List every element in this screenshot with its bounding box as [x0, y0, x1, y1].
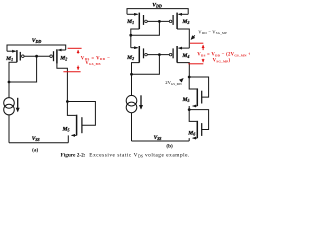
node gate junction (a) — [35, 55, 38, 58]
transistor M2 (PMOS mirror output) — [50, 49, 68, 101]
wire VSS rail (a) — [9, 142, 68, 144]
node M5/M6 junction (b) — [188, 108, 191, 111]
node M2 drain / M5 drain junction — [66, 100, 69, 103]
wire diode connection gates to M1 drain — [9, 56, 37, 82]
svg-text:VDS = VDD − (2VGS_MN +: VDS = VDD − (2VGS_MN + — [197, 53, 250, 58]
svg-text:M4: M4 — [181, 53, 189, 59]
node gate junction row2 (b) — [158, 53, 161, 56]
svg-text:M2: M2 — [126, 55, 134, 61]
svg-text:VSG_MP): VSG_MP) — [213, 59, 231, 64]
node M1 drain junction (b) — [129, 34, 132, 37]
svg-text:VGS_M5: VGS_M5 — [85, 61, 101, 66]
annotation arrow to M4 drain node — [180, 79, 183, 82]
transistor M5 (b) (NMOS, diode-connected) — [189, 77, 208, 110]
current source I2 (b) — [126, 95, 141, 112]
wire diode connection row1 to M1 drain — [131, 21, 160, 35]
wire diode connection row2 to M2 drain — [132, 55, 160, 75]
node M1 drain junction — [8, 81, 11, 84]
svg-text:M1: M1 — [126, 19, 134, 25]
wire gate bus row1 (b) — [147, 20, 169, 22]
wire VDD rail (a) — [7, 45, 66, 51]
svg-text:M5: M5 — [62, 126, 70, 132]
wire VDD rail (b) — [127, 9, 188, 15]
annotation arrow to M3/M4 node — [191, 35, 195, 39]
wire current source to VSS (a) — [8, 115, 10, 143]
wire gate bus row2 (b) — [147, 54, 169, 56]
svg-text:VDD − VSG_MP: VDD − VSG_MP — [198, 29, 227, 35]
wire gate bus M1-M2 — [24, 55, 50, 57]
svg-text:VDD: VDD — [152, 3, 162, 9]
current source I1 (a) — [4, 98, 18, 115]
svg-text:(b): (b) — [166, 143, 173, 150]
svg-text:(a): (a) — [32, 146, 38, 153]
svg-text:M1: M1 — [5, 56, 13, 62]
transistor M3 (PMOS cascode top) — [169, 13, 189, 49]
annotation VDS bracket (b) — [188, 43, 203, 64]
svg-text:2VGS_MN: 2VGS_MN — [165, 80, 182, 86]
node M2 drain junction (b) — [130, 73, 133, 76]
annotation VDS bracket (a) — [63, 48, 81, 72]
svg-text:M6: M6 — [187, 131, 195, 137]
node M4 drain junction (2VGS_MN node) — [188, 76, 191, 79]
svg-text:M2: M2 — [59, 55, 67, 61]
svg-text:M3: M3 — [181, 19, 189, 25]
transistor M5 (NMOS, diode-connected) — [67, 102, 95, 143]
transistor M1 (b) (PMOS, diode-connected) — [127, 13, 147, 48]
svg-text:VDD: VDD — [32, 38, 42, 44]
svg-text:Figure 2-2: Excessive static: Figure 2-2: Excessive static VDS voltage… — [61, 153, 190, 159]
svg-text:M5: M5 — [182, 97, 190, 103]
transistor M4 (PMOS cascode output) — [169, 46, 189, 77]
transistor M2 (b) (PMOS, diode-connected) — [131, 46, 147, 96]
wire VSS rail (b) — [132, 140, 190, 142]
transistor M1 (PMOS, diode-connected) — [7, 50, 24, 98]
node gate junction row1 (b) — [158, 20, 161, 23]
transistor M6 (NMOS, diode-connected) — [189, 110, 208, 141]
wire current source to VSS (b) — [131, 113, 133, 141]
